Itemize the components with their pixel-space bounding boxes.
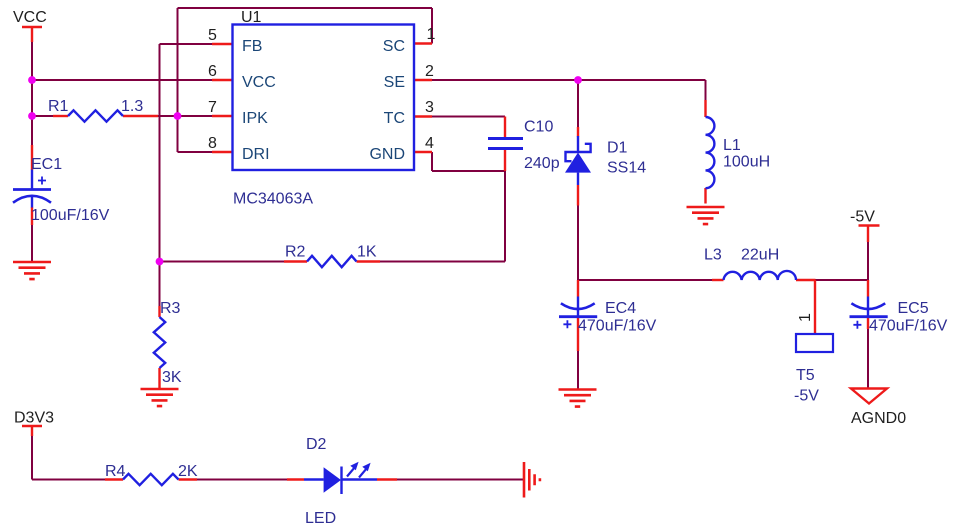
wire R1 right to IPK junction and U1 pin 7 — [158, 115, 213, 117]
wire -5V rail left of L3 — [578, 279, 712, 281]
svg-text:D3V3: D3V3 — [14, 410, 54, 427]
svg-text:EC4: EC4 — [605, 300, 636, 317]
svg-text:EC1: EC1 — [31, 156, 62, 173]
wire D3V3 to R4 — [32, 479, 105, 481]
wire D1 anode down to -5V rail — [577, 206, 579, 281]
resistor R2 zigzag — [307, 256, 357, 267]
svg-text:AGND0: AGND0 — [851, 410, 906, 427]
ground below L1 — [687, 207, 725, 224]
ground right of LED D2 (rotated) — [524, 462, 540, 498]
capacitor C10 bottom plate — [488, 147, 523, 150]
LED D2 cathode bar — [340, 467, 342, 495]
svg-text:EC5: EC5 — [898, 300, 929, 317]
wire DRI horizontal to U1 pin 8 — [178, 151, 214, 153]
wire SE pin 2 to switch node and L1 corner — [432, 79, 706, 81]
junction node VCC/R1/EC1 — [28, 112, 36, 120]
svg-text:SS14: SS14 — [607, 160, 646, 177]
svg-text:3: 3 — [425, 99, 434, 116]
svg-text:TC: TC — [384, 110, 405, 127]
inductor L3 coils — [724, 271, 797, 280]
svg-text:FB: FB — [242, 38, 262, 55]
svg-text:R3: R3 — [160, 300, 181, 317]
capacitor EC4 plate — [559, 315, 597, 318]
svg-text:470uF/16V: 470uF/16V — [869, 318, 948, 335]
diode D1 anode lead segment — [577, 173, 579, 185]
resistor R4 zigzag — [123, 474, 179, 485]
wire SC net right corner down to pin 1 — [431, 8, 433, 44]
testpoint T5 lead pin 1 — [814, 280, 816, 334]
capacitor EC4 blue lead segment — [577, 297, 579, 317]
U1 pin 6 — [212, 79, 233, 81]
capacitor EC5 curved plate — [851, 303, 885, 309]
svg-text:-5V: -5V — [794, 388, 819, 405]
U1 pin 7 — [212, 115, 233, 117]
LED D2 left blue lead — [304, 478, 324, 480]
svg-text:L3: L3 — [704, 247, 722, 264]
wire SC net top horizontal — [178, 7, 433, 9]
U1 pin 2 — [414, 79, 432, 81]
inductor L1 coils — [706, 117, 715, 188]
wire -5V power stub down to rail — [867, 242, 869, 280]
svg-text:C10: C10 — [524, 119, 553, 136]
svg-text:LED: LED — [305, 510, 336, 527]
wire GND pin 4 horizontal to C10 bottom — [432, 170, 505, 172]
junction node VCC/wire — [28, 76, 36, 84]
wire R2 left from FB node — [160, 261, 285, 263]
svg-text:MC34063A: MC34063A — [233, 191, 313, 208]
wire SC net vertical left branch through IPK node to DRI — [177, 8, 179, 152]
capacitor EC1 plus sign — [38, 177, 46, 185]
capacitor EC4 plus sign — [563, 320, 571, 328]
diode D1 bottom lead — [577, 185, 579, 206]
capacitor C10 bottom lead — [504, 150, 506, 171]
svg-text:L1: L1 — [723, 137, 741, 154]
svg-text:U1: U1 — [241, 9, 262, 26]
svg-text:1: 1 — [427, 26, 436, 43]
svg-text:VCC: VCC — [13, 9, 47, 26]
svg-text:1: 1 — [797, 313, 814, 322]
capacitor EC1 plate — [13, 188, 51, 191]
capacitor C10 top lead — [504, 117, 506, 138]
U1 pin 8 — [212, 151, 233, 153]
U1 pin 1 — [414, 42, 432, 44]
svg-text:R4: R4 — [105, 463, 126, 480]
diode D1 top lead — [577, 127, 579, 137]
wire R2 right to vertical riser — [380, 261, 505, 263]
power port D3V3 stub — [31, 426, 33, 436]
ground below EC1 — [13, 262, 51, 279]
wire VCC to U1 pin 6 — [32, 79, 213, 81]
wire R3 top from node — [159, 262, 161, 307]
U1 pin 5 — [212, 43, 233, 45]
capacitor EC1 blue lead segment — [31, 170, 33, 190]
svg-text:2: 2 — [425, 63, 434, 80]
testpoint T5 box — [796, 334, 833, 352]
svg-text:R1: R1 — [48, 98, 69, 115]
capacitor EC5 bottom lead — [867, 318, 869, 330]
svg-text:VCC: VCC — [242, 74, 276, 91]
resistor R1 left lead — [53, 115, 68, 117]
power port D3V3 bar — [22, 425, 42, 427]
diode D1 triangle — [565, 153, 591, 173]
wire GND pin 4 drop — [431, 152, 433, 171]
capacitor EC5 plus sign — [853, 321, 861, 329]
inductor L1 top lead — [704, 100, 706, 117]
wire D1 cathode up to switch node — [577, 80, 579, 129]
resistor R3 top lead — [158, 306, 160, 317]
inductor L3 right lead — [796, 279, 816, 281]
capacitor C10 top plate — [488, 137, 523, 140]
op-amp U1 MC34063A body — [233, 25, 415, 171]
diode D1 schottky cathode bar — [566, 144, 591, 161]
svg-text:2K: 2K — [178, 463, 198, 480]
svg-text:6: 6 — [208, 63, 217, 80]
svg-text:3K: 3K — [162, 369, 182, 386]
capacitor EC1 bottom lead — [31, 207, 33, 225]
power port -5V stub — [867, 226, 869, 243]
resistor R4 left lead — [105, 478, 123, 480]
wire from node to R1 — [32, 115, 53, 117]
svg-text:5: 5 — [208, 27, 217, 44]
wire TC pin 3 to C10 top — [432, 116, 505, 118]
wire FB vertical down to R2/R3 node — [159, 44, 161, 262]
resistor R2 right lead — [357, 260, 381, 262]
U1 pin 3 — [414, 115, 432, 117]
wire FB horizontal to U1 pin 5 — [160, 43, 214, 45]
LED D2 left lead red — [287, 478, 304, 480]
svg-text:1.3: 1.3 — [121, 98, 143, 115]
resistor R3 bottom lead — [158, 368, 160, 388]
capacitor EC5 top lead — [867, 280, 869, 297]
capacitor EC1 top lead — [31, 145, 33, 170]
wire EC4 bottom to ground — [577, 351, 579, 389]
svg-text:22uH: 22uH — [741, 247, 779, 264]
svg-text:8: 8 — [208, 135, 217, 152]
wire R4 to LED D2 — [197, 479, 287, 481]
inductor L1 bottom lead — [704, 188, 706, 204]
svg-text:IPK: IPK — [242, 110, 268, 127]
svg-text:D1: D1 — [607, 140, 628, 157]
svg-text:R2: R2 — [285, 244, 306, 261]
capacitor EC4 bottom lead — [577, 318, 579, 352]
svg-text:1K: 1K — [357, 244, 377, 261]
resistor R4 right lead — [179, 478, 198, 480]
ground below EC4 — [559, 390, 597, 407]
svg-text:-5V: -5V — [850, 209, 875, 226]
capacitor EC4 curved plate — [561, 303, 595, 309]
capacitor EC4 top lead — [577, 280, 579, 297]
svg-text:SE: SE — [384, 74, 405, 91]
capacitor EC1 curved plate — [13, 196, 51, 203]
wire EC5 bottom to AGND0 — [867, 329, 869, 388]
svg-text:240p: 240p — [524, 155, 560, 172]
power port -5V bar — [859, 224, 880, 226]
resistor R1 zigzag — [68, 110, 123, 121]
wire C10 bottom down to R2 net — [504, 171, 506, 262]
junction node IPK — [174, 112, 182, 120]
LED D2 arrow 1 — [347, 462, 371, 478]
svg-text:SC: SC — [383, 38, 405, 55]
wire LED D2 to ground — [397, 479, 524, 481]
LED D2 triangle — [324, 467, 341, 492]
svg-text:470uF/16V: 470uF/16V — [578, 318, 657, 335]
wire D3V3 vertical down — [31, 436, 33, 480]
power port VCC stub — [31, 27, 33, 42]
svg-text:T5: T5 — [796, 367, 815, 384]
resistor R3 zigzag — [154, 317, 165, 368]
diode D1 cathode lead segment — [577, 136, 579, 152]
wire -5V rail right of L3 — [816, 279, 869, 281]
svg-text:7: 7 — [208, 99, 217, 116]
power port VCC bar — [22, 26, 42, 28]
inductor L3 left lead — [712, 279, 724, 281]
svg-text:DRI: DRI — [242, 146, 270, 163]
svg-text:100uF/16V: 100uF/16V — [31, 207, 110, 224]
svg-text:D2: D2 — [306, 436, 327, 453]
wire L1 corner down — [705, 80, 707, 101]
LED D2 right lead red — [377, 478, 397, 480]
wire EC1 bottom to ground — [31, 225, 33, 262]
ground AGND0 triangle — [851, 389, 887, 404]
LED D2 arrow 2 — [359, 469, 366, 477]
svg-text:4: 4 — [425, 135, 434, 152]
capacitor EC1 lower blue lead segment — [31, 196, 33, 208]
capacitor EC5 plate — [850, 315, 888, 318]
junction node SE/D1/L1 — [574, 76, 582, 84]
junction node FB/R2/R3 — [156, 258, 164, 266]
resistor R2 left lead — [284, 260, 307, 262]
ground below R3 — [141, 389, 179, 406]
resistor R1 right lead — [123, 115, 158, 117]
svg-text:GND: GND — [369, 146, 405, 163]
svg-text:100uH: 100uH — [723, 154, 770, 171]
LED D2 right blue lead — [342, 478, 378, 480]
wire VCC vertical from power port down through junctions — [31, 42, 33, 150]
capacitor EC5 blue lead segment — [867, 297, 869, 317]
U1 pin 4 — [414, 151, 432, 153]
